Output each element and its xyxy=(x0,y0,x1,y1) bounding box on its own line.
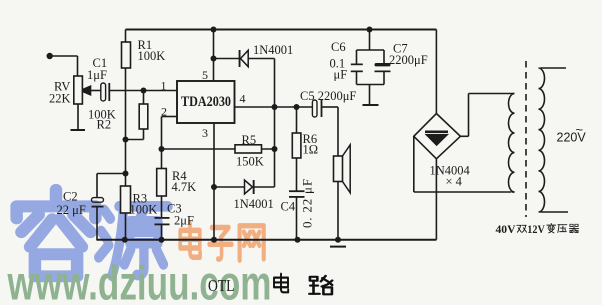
svg-text:2: 2 xyxy=(161,105,167,119)
svg-text:C2: C2 xyxy=(63,190,78,204)
svg-text:2μF: 2μF xyxy=(174,214,194,228)
svg-text:22K: 22K xyxy=(49,92,71,106)
svg-text:C5 2200μF: C5 2200μF xyxy=(300,89,356,103)
svg-text:100K: 100K xyxy=(130,203,158,217)
svg-text:TDA2030: TDA2030 xyxy=(181,94,231,110)
svg-text:4.7K: 4.7K xyxy=(172,180,197,194)
svg-text:1N4001: 1N4001 xyxy=(253,43,293,57)
svg-text:40V: 40V xyxy=(496,222,516,236)
svg-text:OTL: OTL xyxy=(208,276,235,295)
svg-text:1μF: 1μF xyxy=(87,68,107,82)
svg-text:0. 22 μF: 0. 22 μF xyxy=(300,178,315,228)
svg-text:~: ~ xyxy=(576,122,584,137)
svg-text:R5: R5 xyxy=(242,133,257,147)
svg-text:150K: 150K xyxy=(236,155,264,169)
svg-text:2200μF: 2200μF xyxy=(389,53,428,67)
svg-text:4: 4 xyxy=(240,92,246,106)
svg-text:3: 3 xyxy=(202,126,208,140)
svg-text:1Ω: 1Ω xyxy=(303,143,319,157)
svg-text:5: 5 xyxy=(202,68,208,82)
svg-text:100K: 100K xyxy=(138,49,166,63)
svg-text:12V: 12V xyxy=(527,222,545,236)
svg-text:R2: R2 xyxy=(97,118,112,132)
svg-text:C6: C6 xyxy=(331,40,346,54)
svg-text:μF: μF xyxy=(334,68,348,82)
svg-text:× 4: × 4 xyxy=(446,175,463,189)
svg-text:1: 1 xyxy=(161,79,167,93)
svg-text:22 μF: 22 μF xyxy=(57,203,86,217)
svg-text:C4: C4 xyxy=(281,200,296,214)
svg-text:1N4001: 1N4001 xyxy=(234,197,274,211)
